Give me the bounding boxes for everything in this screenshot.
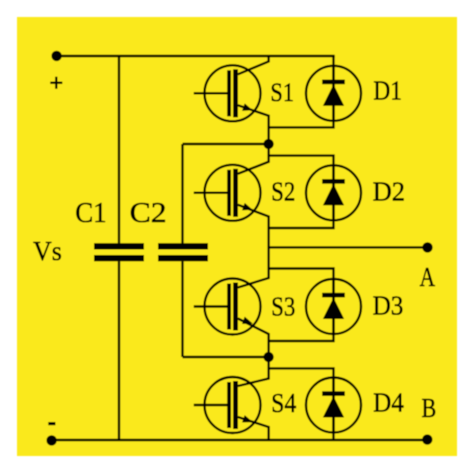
svg-text:S2: S2 <box>271 177 295 207</box>
label - (negative terminal) <box>48 422 55 425</box>
wire top DC+ rail <box>57 55 335 57</box>
svg-text:A: A <box>420 262 436 293</box>
wire C2 lower lead <box>181 261 183 357</box>
transistor S1 (IGBT) <box>194 65 261 121</box>
wire C1 lower lead <box>118 261 120 440</box>
diode D4 <box>306 378 361 433</box>
node junction S3/S4 <box>263 352 273 362</box>
svg-text:C1: C1 <box>75 198 106 229</box>
svg-text:Vs: Vs <box>33 236 62 267</box>
wire D1 branch <box>269 56 334 127</box>
wire S3 emitter to S4 collector bus <box>238 319 269 387</box>
wire S1 collector riser <box>238 56 269 74</box>
svg-text:D3: D3 <box>373 291 404 322</box>
wire C1 upper lead <box>118 56 120 243</box>
svg-text:B: B <box>422 393 437 424</box>
wire S2 emitter to S3 collector bus <box>238 205 269 288</box>
diode D3 <box>306 279 361 334</box>
svg-text:S3: S3 <box>271 292 295 322</box>
wire D3 branch <box>269 269 334 342</box>
wire S1 emitter to S2 collector bus <box>238 105 269 174</box>
wire phase output A wire <box>269 246 428 248</box>
wire bottom DC- rail <box>52 439 428 441</box>
wire C2 upper lead <box>181 144 183 243</box>
node DC+ terminal <box>51 51 61 61</box>
wire junction S1/S2 to C2 top <box>183 143 269 145</box>
svg-text:D2: D2 <box>373 177 405 208</box>
svg-text:S4: S4 <box>271 388 297 418</box>
node node A <box>422 242 432 252</box>
svg-text:S1: S1 <box>270 77 294 107</box>
capacitor C1 <box>94 243 144 261</box>
capacitor C2 <box>158 243 208 261</box>
svg-text:C2: C2 <box>130 198 167 229</box>
wire D4 branch <box>269 368 334 440</box>
transistor S2 (IGBT) <box>194 165 261 221</box>
svg-text:D4: D4 <box>373 388 404 419</box>
node node B <box>422 434 432 444</box>
node DC- terminal <box>46 435 56 445</box>
diode D1 <box>306 66 361 121</box>
node junction S1/S2 <box>263 139 273 149</box>
transistor S3 (IGBT) <box>194 279 261 335</box>
label + (positive terminal) <box>50 77 62 89</box>
diode D2 <box>306 165 361 220</box>
wire D2 branch <box>269 156 334 228</box>
wire junction S3/S4 to C2 bottom <box>183 356 269 358</box>
transistor S4 (IGBT) <box>194 377 261 433</box>
wire S4 emitter drop to DC- rail <box>238 417 269 440</box>
svg-text:D1: D1 <box>373 76 402 106</box>
